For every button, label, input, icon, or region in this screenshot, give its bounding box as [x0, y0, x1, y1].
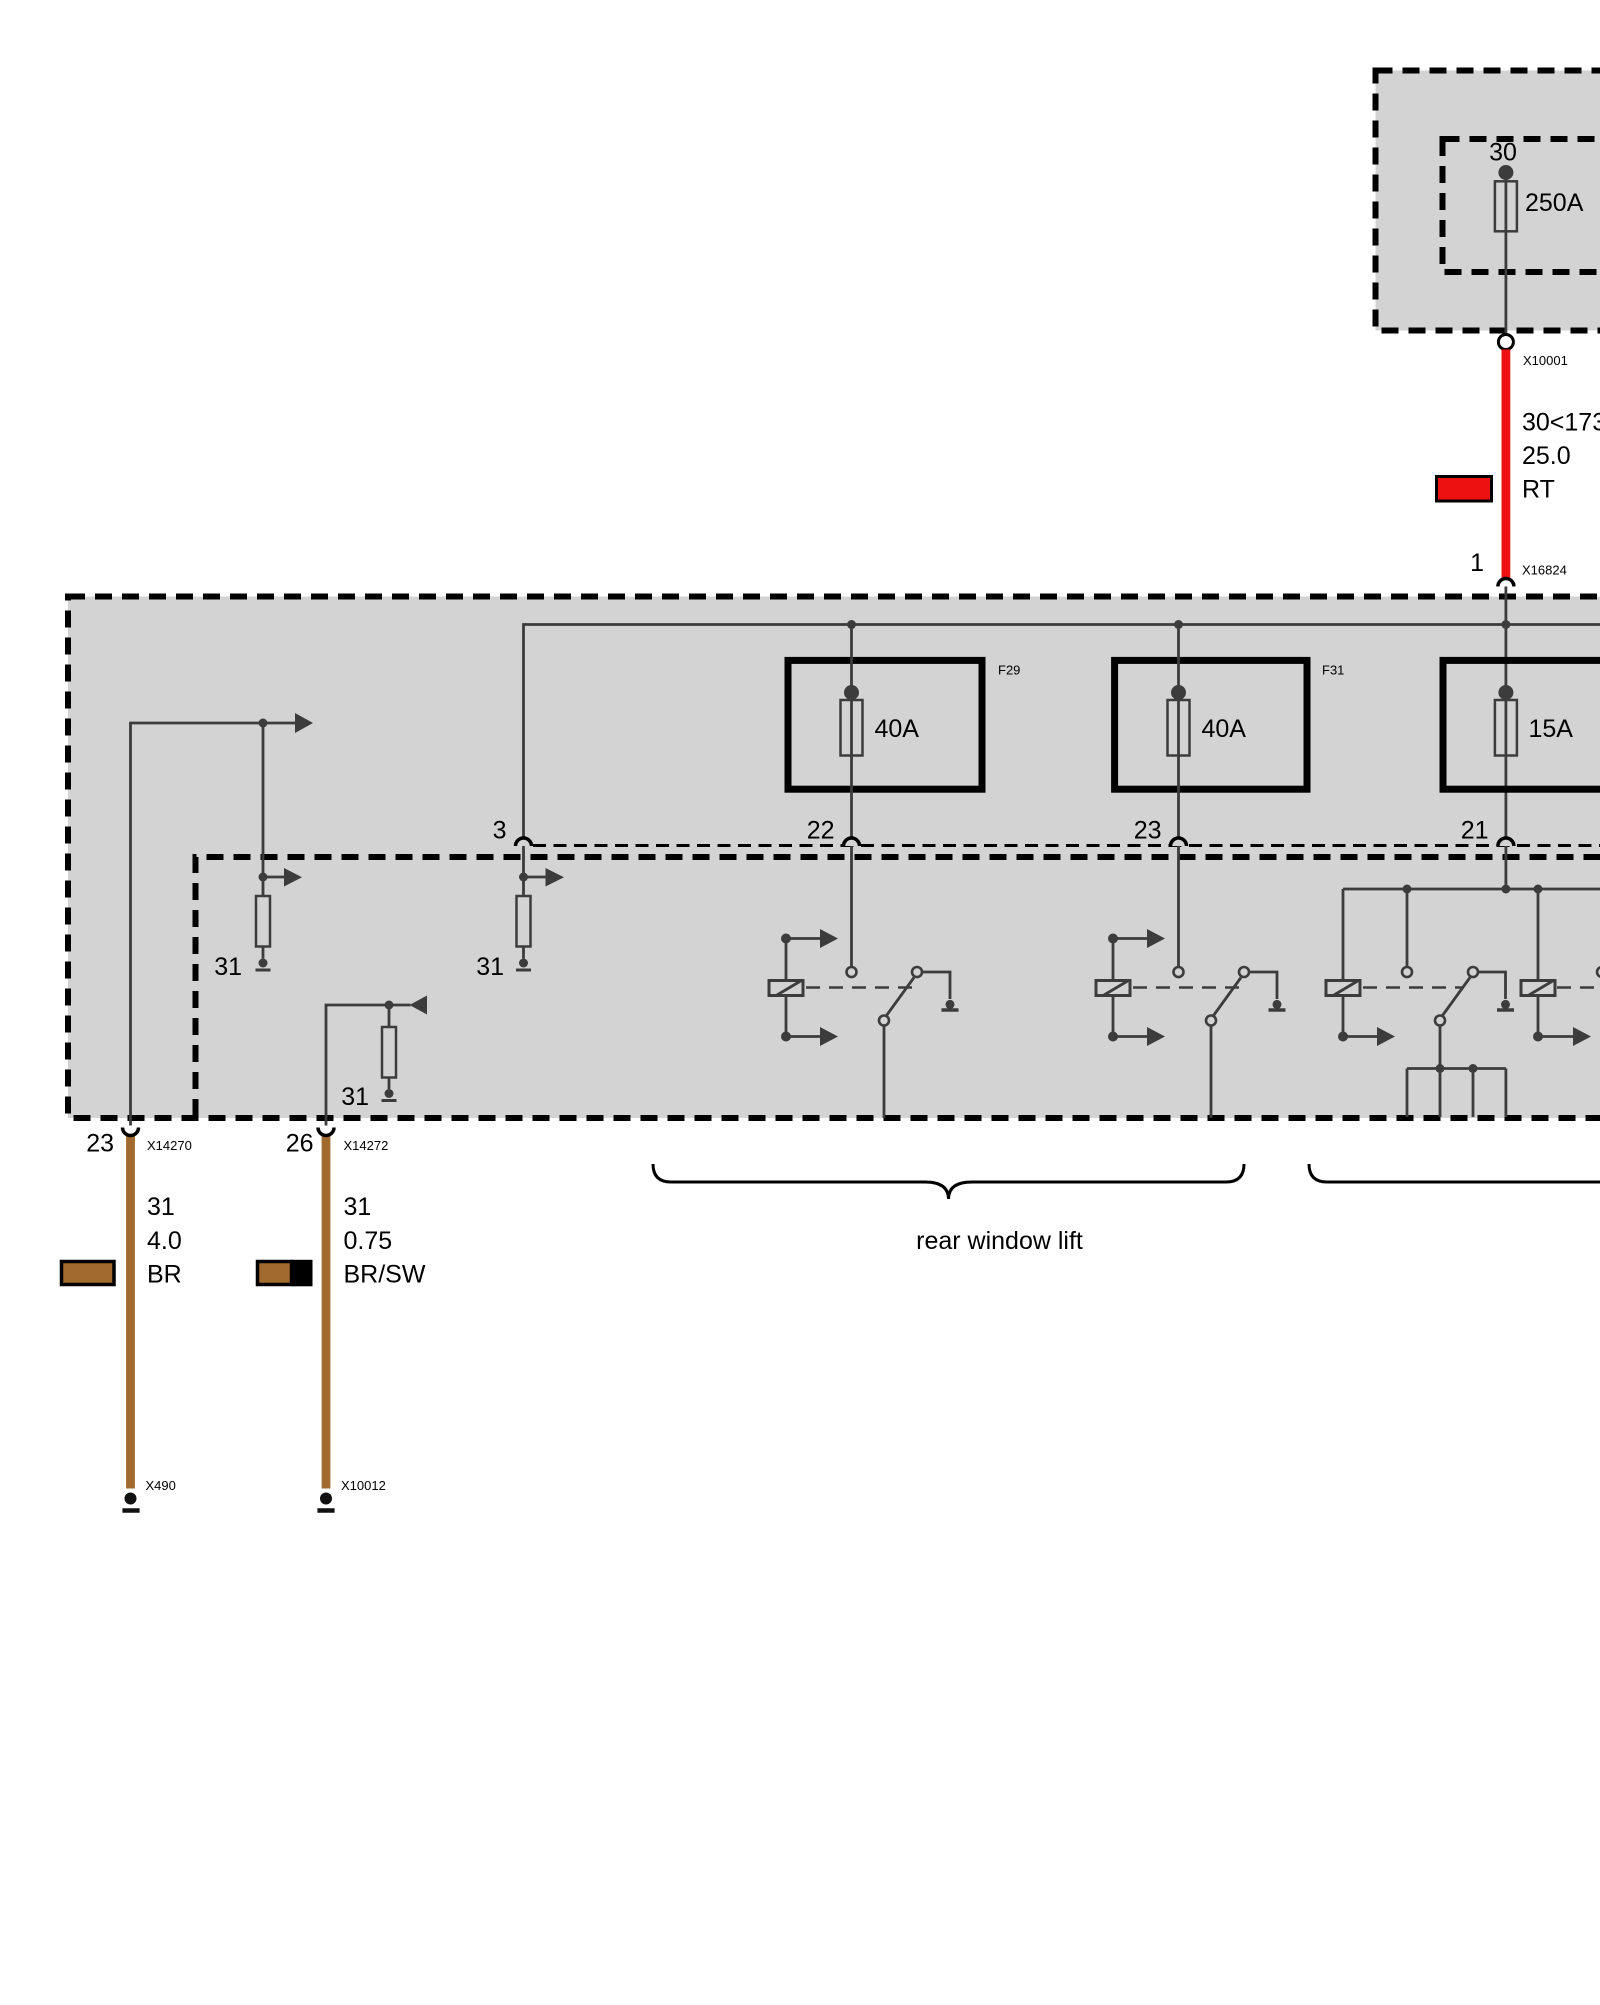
svg-text:31: 31 — [147, 1193, 175, 1221]
svg-text:BR: BR — [147, 1261, 182, 1289]
svg-text:31: 31 — [476, 953, 504, 981]
svg-text:X10001: X10001 — [1523, 353, 1568, 368]
svg-text:rear window lift: rear window lift — [916, 1227, 1083, 1255]
svg-text:23: 23 — [1134, 817, 1162, 845]
svg-text:0.75: 0.75 — [344, 1227, 393, 1255]
svg-text:15A: 15A — [1529, 715, 1574, 743]
svg-text:25.0: 25.0 — [1522, 442, 1571, 470]
svg-text:22: 22 — [807, 817, 835, 845]
svg-text:3: 3 — [493, 817, 507, 845]
svg-text:31: 31 — [344, 1193, 372, 1221]
svg-text:RT: RT — [1522, 476, 1555, 504]
svg-text:21: 21 — [1461, 817, 1489, 845]
svg-text:1: 1 — [1470, 549, 1484, 577]
svg-text:X490: X490 — [146, 1478, 176, 1493]
svg-text:250A: 250A — [1525, 189, 1584, 217]
svg-text:F29: F29 — [998, 663, 1020, 678]
svg-text:X10012: X10012 — [341, 1478, 386, 1493]
svg-text:X16824: X16824 — [1522, 563, 1567, 578]
svg-text:F31: F31 — [1322, 663, 1344, 678]
svg-text:40A: 40A — [1202, 715, 1247, 743]
svg-text:X14270: X14270 — [147, 1138, 192, 1153]
svg-text:31: 31 — [214, 953, 242, 981]
svg-text:31: 31 — [341, 1083, 369, 1111]
svg-text:30<1735: 30<1735 — [1522, 409, 1600, 437]
svg-text:4.0: 4.0 — [147, 1227, 182, 1255]
svg-text:26: 26 — [286, 1130, 314, 1158]
svg-text:40A: 40A — [875, 715, 920, 743]
svg-text:30: 30 — [1489, 139, 1517, 167]
svg-text:23: 23 — [86, 1130, 114, 1158]
svg-text:X14272: X14272 — [344, 1138, 389, 1153]
svg-text:BR/SW: BR/SW — [344, 1261, 426, 1289]
